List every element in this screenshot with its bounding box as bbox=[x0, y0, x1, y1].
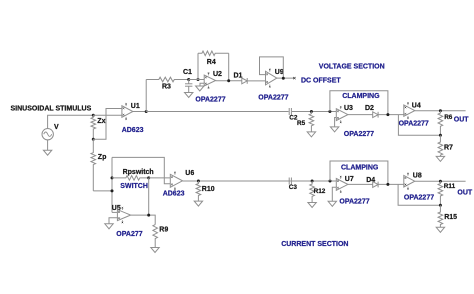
label C3 bbox=[289, 184, 298, 191]
svg-text:R4: R4 bbox=[207, 59, 216, 66]
ground below U3 bbox=[330, 127, 338, 132]
label OPA2277 U7 bbox=[339, 199, 369, 206]
wire U3 out to D2 to U4 bbox=[348, 114, 404, 116]
label CURRENT SECTION bbox=[281, 241, 348, 248]
node clamp1 out bbox=[386, 113, 389, 116]
label U7 bbox=[345, 176, 354, 183]
label VOLTAGE SECTION bbox=[319, 63, 385, 70]
svg-text:AD623: AD623 bbox=[122, 127, 144, 134]
wire Rpswitch right vertical bbox=[148, 178, 150, 215]
wire V bottom to ground bbox=[47, 140, 49, 150]
node R11 top bbox=[439, 180, 442, 183]
svg-text:R9: R9 bbox=[159, 226, 168, 233]
svg-text:D1: D1 bbox=[234, 72, 243, 79]
op-amp U3 OPA2277 bbox=[336, 106, 348, 123]
svg-text:OPA2277: OPA2277 bbox=[404, 194, 434, 201]
label OUT current bbox=[457, 190, 473, 197]
wire Zx top to U1 -in bbox=[93, 114, 122, 116]
op-amp U9 OPA2277 bbox=[266, 69, 277, 88]
resistor Zp bbox=[91, 139, 96, 191]
node clamp1 left bbox=[328, 110, 331, 113]
resistor R11 bbox=[438, 181, 443, 205]
svg-text:U9: U9 bbox=[275, 69, 284, 76]
label CLAMPING top bbox=[342, 93, 380, 100]
capacitor C3 bbox=[289, 178, 291, 185]
svg-text:R11: R11 bbox=[444, 183, 456, 190]
label Zp bbox=[98, 154, 107, 161]
terminal DC OFFSET pin bbox=[293, 77, 295, 79]
resistor R12 bbox=[310, 181, 315, 202]
node R6 top bbox=[439, 109, 442, 112]
wire U5 -in to ground bbox=[109, 218, 117, 224]
label R5 bbox=[297, 120, 306, 127]
svg-text:CLAMPING: CLAMPING bbox=[342, 93, 380, 100]
wire U3 -in to ground bbox=[335, 118, 337, 127]
wire Rpswitch to U6 +in bbox=[149, 177, 171, 179]
label OUT voltage bbox=[454, 116, 470, 123]
resistor Zx bbox=[91, 115, 96, 139]
wire U7 -in to ground bbox=[332, 187, 336, 201]
node R10 tap bbox=[197, 180, 200, 183]
label OPA2277 U4 bbox=[399, 121, 429, 128]
capacitor C1 bbox=[185, 80, 192, 93]
node R4 feedback tap bbox=[197, 78, 200, 81]
label R9 bbox=[159, 226, 168, 233]
op-amp U6 AD623 bbox=[170, 172, 182, 190]
resistor R5 bbox=[309, 112, 314, 132]
resistor R7 bbox=[438, 135, 443, 156]
label R11 bbox=[444, 183, 456, 190]
wire rail C2 to U3 bbox=[292, 111, 336, 113]
svg-text:SINUSOIDAL STIMULUS: SINUSOIDAL STIMULUS bbox=[11, 106, 92, 113]
node U9 out bbox=[282, 77, 285, 80]
label R10 bbox=[202, 186, 215, 193]
wire Zp bottom to node bbox=[93, 190, 112, 192]
label U4 bbox=[412, 103, 421, 110]
svg-text:R12: R12 bbox=[314, 188, 326, 195]
label AD623 U1 bbox=[122, 127, 144, 134]
svg-text:U7: U7 bbox=[345, 176, 354, 183]
ground below U7 bbox=[328, 201, 336, 206]
node U1 out / R3 tap bbox=[145, 110, 148, 113]
capacitor C2 bbox=[289, 108, 291, 115]
wire U2 out to D1 bbox=[216, 80, 242, 82]
ground below R12 bbox=[308, 203, 316, 208]
wire U4 feedback bbox=[398, 115, 440, 136]
label R7 bbox=[444, 144, 453, 151]
label R3 bbox=[162, 84, 171, 91]
svg-text:U4: U4 bbox=[412, 103, 421, 110]
svg-text:DC OFFSET: DC OFFSET bbox=[301, 77, 341, 84]
svg-text:Zx: Zx bbox=[97, 118, 105, 125]
svg-text:U3: U3 bbox=[344, 105, 353, 112]
label D4 bbox=[366, 177, 375, 184]
svg-text:CLAMPING: CLAMPING bbox=[341, 165, 379, 172]
label OPA2277 U8 bbox=[404, 194, 434, 201]
wire V top to Zx top bbox=[48, 115, 94, 128]
op-amp U8 OPA2277 bbox=[404, 173, 415, 190]
svg-text:C3: C3 bbox=[289, 184, 298, 191]
label U9 bbox=[275, 69, 284, 76]
svg-text:Rpswitch: Rpswitch bbox=[123, 169, 154, 176]
node Zx bottom bbox=[92, 138, 95, 141]
ground below V bbox=[43, 150, 51, 155]
svg-text:OPA2277: OPA2277 bbox=[339, 199, 369, 206]
svg-text:OPA2277: OPA2277 bbox=[258, 94, 288, 101]
wire Zx bottom to U1 +in bbox=[93, 109, 122, 140]
svg-text:VOLTAGE SECTION: VOLTAGE SECTION bbox=[319, 63, 385, 70]
node R5 tap bbox=[310, 110, 313, 113]
resistor R6 bbox=[438, 111, 443, 136]
svg-text:CURRENT SECTION: CURRENT SECTION bbox=[281, 241, 348, 248]
svg-text:R15: R15 bbox=[444, 214, 457, 221]
wire R3 branch vertical bbox=[145, 80, 147, 112]
label U5 bbox=[112, 205, 121, 212]
ground below R9 bbox=[151, 248, 159, 253]
wire clamp2 feedback bbox=[330, 161, 388, 184]
resistor R4 bbox=[198, 51, 229, 56]
ground below C1 bbox=[185, 93, 193, 98]
ground below U5 bbox=[105, 224, 113, 229]
svg-text:OUT: OUT bbox=[454, 116, 470, 123]
resistor R10 bbox=[196, 181, 201, 201]
wire R4 right vertical bbox=[228, 53, 230, 81]
label R12 bbox=[314, 188, 326, 195]
label OPA2277 U9 bbox=[258, 94, 288, 101]
wire U5 +in bbox=[112, 211, 117, 213]
op-amp U7 OPA2277 bbox=[336, 176, 348, 193]
label DC OFFSET bbox=[301, 77, 341, 84]
ground below R15 bbox=[436, 227, 444, 232]
label CLAMPING bottom bbox=[341, 165, 379, 172]
node Zp bottom junction bbox=[111, 189, 114, 192]
diode D4 bbox=[373, 182, 378, 188]
svg-text:AD623: AD623 bbox=[163, 190, 185, 197]
label D1 bbox=[234, 72, 243, 79]
resistor R3 bbox=[146, 77, 189, 82]
wire U7 out to D4 to U8 bbox=[348, 183, 404, 185]
label C2 bbox=[289, 115, 298, 122]
wire voltage rail bbox=[146, 111, 288, 113]
svg-text:U2: U2 bbox=[213, 71, 222, 78]
wire U2 +in to ground bbox=[200, 83, 204, 86]
label OPA2277 U2 bbox=[195, 97, 225, 104]
svg-text:Zp: Zp bbox=[98, 154, 107, 161]
label R6 bbox=[444, 114, 453, 121]
node U2 out bbox=[227, 79, 230, 82]
diode D2 bbox=[373, 112, 378, 118]
label C1 bbox=[183, 69, 192, 76]
wire C1 node to U2 -in bbox=[189, 79, 205, 81]
svg-text:OUT: OUT bbox=[457, 190, 473, 197]
svg-text:C1: C1 bbox=[183, 69, 192, 76]
diode D1 bbox=[242, 78, 247, 84]
label OPA277 U5 bbox=[116, 231, 142, 238]
label V bbox=[54, 124, 59, 131]
svg-text:R6: R6 bbox=[444, 114, 453, 121]
label R4 bbox=[207, 59, 216, 66]
label Rpswitch bbox=[123, 169, 154, 176]
svg-text:OPA2277: OPA2277 bbox=[195, 97, 225, 104]
wire U9 feedback loop bbox=[260, 57, 284, 78]
wire clamp1 feedback bbox=[330, 91, 388, 115]
node clamp2 left bbox=[329, 180, 332, 183]
resistor R9 bbox=[153, 225, 158, 248]
label SWITCH bbox=[120, 183, 148, 190]
op-amp U4 OPA2277 bbox=[404, 102, 415, 119]
wire D1 to U9 +in bbox=[246, 80, 265, 82]
wire U4 out to OUT bbox=[415, 110, 466, 112]
node U5 out feedback bbox=[147, 214, 150, 217]
wire R4 left vertical bbox=[197, 53, 199, 79]
svg-text:SWITCH: SWITCH bbox=[120, 183, 148, 190]
wire U5 out to R9 bbox=[131, 215, 156, 225]
label R15 bbox=[444, 214, 457, 221]
svg-text:OPA277: OPA277 bbox=[116, 231, 142, 238]
label AD623 U6 bbox=[163, 190, 185, 197]
label Zx bbox=[97, 118, 105, 125]
svg-text:U6: U6 bbox=[185, 170, 194, 177]
svg-text:D2: D2 bbox=[365, 105, 374, 112]
label D2 bbox=[365, 105, 374, 112]
wire U8 out to OUT bbox=[415, 180, 466, 182]
ground below R5 bbox=[307, 132, 315, 137]
wire switch left vertical bbox=[111, 157, 113, 212]
op-amp U5 OPA277 bbox=[117, 207, 130, 223]
ground below R7 bbox=[436, 156, 444, 161]
node R6 R7 junction bbox=[439, 134, 442, 137]
op-amp U1 AD623 bbox=[122, 103, 133, 120]
node switch left mid bbox=[111, 176, 114, 179]
resistor R15 bbox=[438, 205, 443, 227]
ground below U2 +in bbox=[196, 86, 204, 91]
node R11 R15 junction bbox=[439, 204, 442, 207]
wire U8 feedback bbox=[398, 184, 440, 205]
svg-text:U1: U1 bbox=[131, 103, 140, 110]
ground below R10 bbox=[194, 201, 202, 206]
wire U1 output to rail bbox=[133, 111, 146, 113]
voltage source V1 bbox=[42, 129, 53, 140]
label U8 bbox=[413, 172, 422, 179]
op-amp U2 OPA2277 bbox=[204, 72, 215, 88]
svg-text:R10: R10 bbox=[202, 186, 215, 193]
label SINUSOIDAL STIMULUS bbox=[11, 106, 92, 113]
label OPA2277 U3 bbox=[344, 131, 374, 138]
node Rpswitch right bbox=[147, 176, 150, 179]
svg-text:R5: R5 bbox=[297, 120, 306, 127]
label U3 bbox=[344, 105, 353, 112]
node Zx top bbox=[92, 114, 95, 117]
wire U9 output bbox=[277, 77, 294, 79]
node clamp2 out bbox=[386, 183, 389, 186]
node R12 tap bbox=[311, 180, 314, 183]
node C1 tap bbox=[187, 78, 190, 81]
svg-text:R3: R3 bbox=[162, 84, 171, 91]
svg-text:R7: R7 bbox=[444, 144, 453, 151]
svg-text:V: V bbox=[54, 124, 59, 131]
svg-text:OPA2277: OPA2277 bbox=[399, 121, 429, 128]
wire switch top to U6 bbox=[112, 157, 170, 183]
svg-text:U8: U8 bbox=[413, 172, 422, 179]
label U6 bbox=[185, 170, 194, 177]
svg-text:OPA2277: OPA2277 bbox=[344, 131, 374, 138]
resistor Rpswitch bbox=[112, 176, 149, 181]
wire current rail bbox=[183, 180, 337, 182]
label U2 bbox=[213, 71, 222, 78]
label U1 bbox=[131, 103, 140, 110]
